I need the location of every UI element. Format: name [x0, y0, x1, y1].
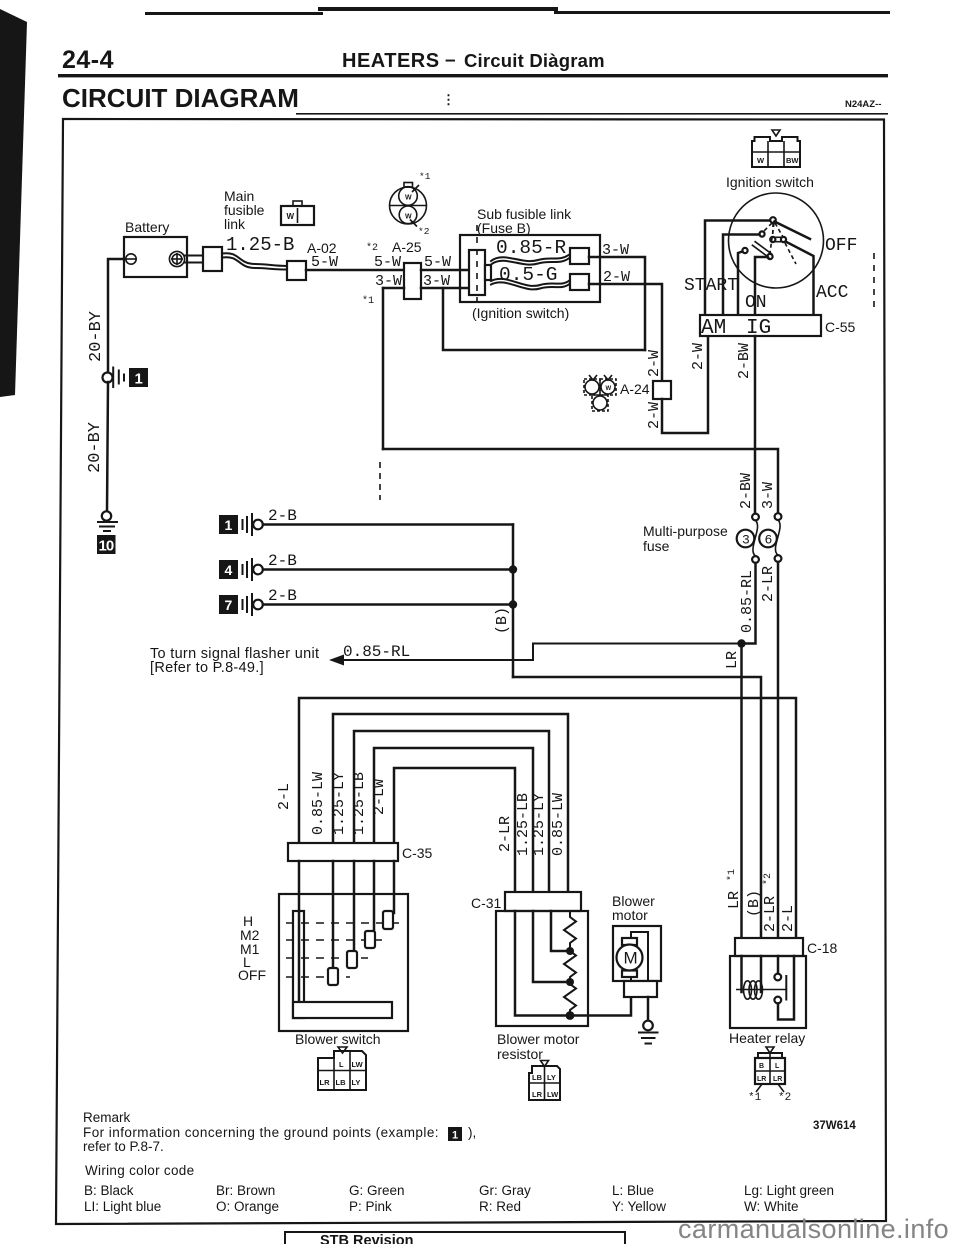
svg-text:[Refer to P.8-49.]: [Refer to P.8-49.] [150, 660, 264, 676]
blower switch contact H [383, 911, 393, 929]
svg-text:OFF: OFF [825, 236, 857, 256]
svg-text:motor: motor [612, 907, 648, 923]
blower switch dashed position line H [286, 922, 399, 924]
junction dot resistor tap M1 [566, 947, 574, 955]
wire 3-W long run to fuse 6 [383, 449, 778, 514]
connector C-18 [735, 938, 803, 956]
svg-text:LB: LB [532, 1073, 543, 1082]
svg-text:*1: *1 [748, 1092, 762, 1104]
connector C-35 [288, 843, 398, 861]
svg-text:G: Green: G: Green [349, 1183, 405, 1198]
svg-text:AM: AM [701, 317, 726, 340]
frame: diagram border box [56, 119, 886, 1224]
main fusible link connector icon [281, 206, 314, 225]
wire battery negative 20-BY [108, 259, 124, 373]
wire 1.25-LY pin to resistor tap [551, 911, 566, 951]
main fusible link holder [203, 247, 222, 271]
ground blower motor [639, 1021, 658, 1044]
svg-text:M: M [624, 949, 638, 968]
heater relay contact bottom [774, 997, 781, 1004]
svg-text:1.25-LB: 1.25-LB [515, 793, 532, 856]
page chrome: scan wedge [0, 9, 27, 397]
wire 2-LW to 2-LR loop [394, 768, 515, 892]
svg-text:carmanualsonline.info: carmanualsonline.info [678, 1214, 949, 1244]
main fusible link wire 1.25-B [222, 253, 288, 266]
svg-text:refer to P.8-7.: refer to P.8-7. [83, 1139, 164, 1154]
svg-text:LR: LR [320, 1078, 331, 1087]
ignition switch pivot [770, 217, 776, 223]
ignition switch circle [729, 193, 824, 288]
blower motor internal wire [631, 932, 648, 981]
svg-text:3-W: 3-W [760, 482, 777, 509]
svg-text:Multi-purpose: Multi-purpose [643, 523, 728, 539]
ignition switch OFF arm [775, 222, 811, 240]
svg-text:5-W: 5-W [374, 254, 401, 271]
ignition switch contact IG1 [742, 248, 747, 253]
svg-text:LR: LR [532, 1090, 543, 1099]
blower motor brush top [622, 938, 637, 945]
svg-text:(Ignition switch): (Ignition switch) [472, 305, 569, 321]
blower switch contact M1 [347, 951, 357, 968]
svg-text:LI: Light blue: LI: Light blue [84, 1199, 161, 1214]
svg-text:W: White: W: White [744, 1199, 799, 1214]
junction dot resistor output [566, 1011, 575, 1020]
svg-text:2-B: 2-B [268, 552, 297, 570]
heater relay contact bar [785, 976, 787, 1000]
ground 7 body ground symbol [219, 594, 263, 615]
svg-text:LY: LY [547, 1073, 556, 1082]
sub fusible link box [460, 235, 600, 302]
svg-text:Blower motor: Blower motor [497, 1031, 580, 1047]
svg-text:START: START [684, 276, 738, 296]
svg-text:L: Blue: L: Blue [612, 1183, 654, 1198]
svg-text:A-25: A-25 [392, 239, 422, 255]
heater relay contact wiring [777, 956, 780, 974]
blower switch contact M2 [365, 931, 375, 948]
wire (B) to heater relay [513, 677, 761, 938]
ignition switch ACC arm [786, 242, 814, 317]
svg-text:0.85-LW: 0.85-LW [310, 772, 327, 835]
ground 10 [97, 511, 117, 554]
ground 4 body ground symbol [219, 559, 263, 580]
svg-text:Lg: Light green: Lg: Light green [744, 1183, 834, 1198]
svg-text:HEATERS: HEATERS [342, 50, 440, 72]
svg-text:LW: LW [547, 1090, 559, 1099]
connector A-25 circle symbol [390, 171, 431, 237]
svg-text:Ignition switch: Ignition switch [726, 174, 814, 190]
ignition switch dashed position lines [763, 223, 796, 264]
svg-text:2-B: 2-B [268, 507, 297, 525]
svg-text:O: Orange: O: Orange [216, 1199, 279, 1214]
svg-text:ACC: ACC [816, 283, 849, 303]
svg-text:C-18: C-18 [807, 940, 838, 956]
blower motor connector block [624, 981, 657, 997]
svg-text:Remark: Remark [83, 1110, 131, 1125]
blower switch dashed position line M1 [286, 957, 368, 959]
svg-text:37W614: 37W614 [813, 1120, 856, 1132]
svg-text:CIRCUIT DIAGRAM: CIRCUIT DIAGRAM [62, 83, 299, 113]
blower motor resistor connector icon [529, 1061, 560, 1101]
blower motor resistor box [496, 911, 588, 1026]
junction dot resistor tap M2 [566, 978, 574, 986]
svg-text:C-55: C-55 [825, 319, 856, 335]
svg-text:0.85-RL: 0.85-RL [739, 570, 756, 633]
svg-text:1: 1 [135, 371, 143, 388]
wire blower motor to ground [647, 997, 650, 1021]
svg-text:2-W: 2-W [646, 402, 663, 429]
svg-text:*1: *1 [362, 295, 374, 307]
svg-text:LR: LR [724, 651, 741, 669]
blower switch dashed position line M2 [286, 939, 382, 941]
blower switch connector icon [318, 1047, 366, 1090]
sub fusible link right connectors [570, 248, 589, 264]
wire 2-L blower switch to heater relay [299, 698, 796, 938]
svg-text:L: L [339, 1060, 344, 1069]
svg-text:W: W [405, 195, 412, 202]
STB Revision box [285, 1232, 625, 1244]
svg-text:W: W [606, 386, 612, 392]
svg-text:2-L: 2-L [780, 905, 797, 932]
svg-text:fuse: fuse [643, 538, 670, 554]
heater relay coil feed (B) [760, 956, 763, 992]
svg-text:OFF: OFF [238, 967, 266, 983]
svg-text:W: W [287, 212, 295, 221]
ground 1 at battery [103, 368, 149, 388]
svg-text:*2: *2 [418, 226, 430, 237]
ignition switch connector icon [752, 130, 800, 167]
ignition switch tilted contact bar [755, 241, 773, 254]
svg-text:7: 7 [225, 597, 233, 613]
svg-text:Circuit Diàgram: Circuit Diàgram [464, 50, 605, 71]
wire 2-LR pin to resistor bottom [515, 911, 566, 1016]
svg-text:2-LR: 2-LR [760, 566, 777, 602]
ground 1 body ground symbol [219, 514, 263, 535]
heater relay box [730, 956, 806, 1028]
svg-text:5-W: 5-W [424, 254, 451, 271]
wire 3-W *1 down from A-25 [382, 288, 385, 449]
svg-text:For information concerning: For information concerning the ground po… [83, 1125, 439, 1140]
svg-text:2-LR: 2-LR [762, 896, 779, 932]
heater relay contact top [774, 974, 781, 981]
svg-text:*2: *2 [762, 873, 774, 885]
wire 1.25-LB pin to resistor tap [533, 911, 566, 982]
battery [124, 237, 187, 277]
svg-text:10: 10 [99, 538, 114, 555]
connector A-24 circle symbol [584, 375, 616, 411]
svg-text:*2: *2 [366, 242, 378, 254]
svg-text:Heater relay: Heater relay [729, 1030, 805, 1046]
svg-text:2-B: 2-B [268, 587, 297, 605]
svg-text:L: L [775, 1063, 780, 1070]
svg-text:*1: *1 [726, 869, 738, 881]
svg-text:resistor: resistor [497, 1046, 543, 1062]
svg-text:LB: LB [336, 1078, 347, 1087]
svg-text:20-BY: 20-BY [87, 311, 106, 362]
svg-text:LR: LR [726, 891, 743, 909]
ignition switch contact AM2 [759, 231, 764, 236]
svg-text:1.25-LB: 1.25-LB [351, 772, 368, 835]
svg-text:2-LW: 2-LW [371, 779, 388, 815]
wires C-35 into blower switch [298, 861, 301, 1004]
svg-text:W: W [757, 156, 765, 165]
svg-text:N24AZ--: N24AZ-- [845, 99, 881, 110]
ignition switch contact ON [767, 254, 772, 259]
svg-text:*1: *1 [419, 171, 431, 182]
heater relay coil feed LR [740, 956, 743, 992]
svg-text:STB Revision: STB Revision [320, 1233, 413, 1244]
svg-text:Blower switch: Blower switch [295, 1031, 381, 1047]
svg-text:2-BW: 2-BW [736, 343, 753, 379]
svg-text:Y: Yellow: Y: Yellow [612, 1199, 666, 1214]
svg-text:0.85-R: 0.85-R [496, 237, 567, 259]
junction dot 2-B bus b [509, 600, 517, 608]
junction dot LR [737, 639, 745, 647]
svg-text:IG: IG [746, 317, 771, 340]
svg-text:2-W: 2-W [690, 343, 707, 370]
blower switch contact L [328, 968, 338, 985]
header top rules [145, 12, 323, 15]
blower switch dashed position line OFF [286, 976, 350, 978]
svg-text:),: ), [468, 1125, 476, 1140]
blower motor brush bottom [622, 971, 637, 978]
svg-text:Br: Brown: Br: Brown [216, 1183, 275, 1198]
blower motor M [617, 945, 643, 971]
svg-text:2-BW: 2-BW [738, 473, 755, 509]
wire resistor to blower motor [570, 997, 631, 1016]
svg-text:Wiring color code: Wiring color code [85, 1163, 194, 1178]
svg-text:⋮: ⋮ [442, 92, 455, 107]
svg-text:Battery: Battery [125, 219, 169, 235]
svg-text:ON: ON [745, 293, 767, 313]
svg-text:(B): (B) [494, 607, 511, 634]
svg-text:LY: LY [352, 1078, 361, 1087]
sub fusible link left connector [469, 250, 485, 295]
battery negative terminal [126, 254, 136, 264]
svg-text:LR: LR [757, 1076, 766, 1083]
svg-text:C-35: C-35 [402, 845, 433, 861]
svg-text:24-4: 24-4 [62, 46, 114, 74]
svg-text:1: 1 [225, 517, 233, 533]
svg-text:(Fuse B): (Fuse B) [477, 220, 531, 236]
fold line artifact [379, 462, 381, 500]
svg-text:2-LR: 2-LR [497, 816, 514, 852]
ignition switch movable contact bar [773, 236, 783, 238]
wire START from pivot [705, 221, 770, 317]
svg-text:2-W: 2-W [646, 350, 663, 377]
blower switch output bar [293, 1002, 392, 1018]
wire 3-W bypass loop [443, 288, 645, 350]
svg-text:P: Pink: P: Pink [349, 1199, 392, 1214]
blower switch common bar [293, 911, 304, 1018]
resistor element zigzag [564, 911, 576, 1015]
heater relay armature line [736, 989, 786, 991]
svg-text:B: B [759, 1063, 764, 1070]
junction dot 2-B bus a [509, 565, 517, 573]
wire 0.85-LW loop [333, 714, 568, 892]
battery positive terminal [169, 251, 184, 266]
svg-text:R: Red: R: Red [479, 1199, 521, 1214]
svg-text:1.25-LY: 1.25-LY [331, 772, 348, 835]
svg-text:(B): (B) [746, 890, 763, 917]
svg-text:20-BY: 20-BY [86, 422, 105, 473]
heater relay coil [744, 981, 763, 999]
svg-text:6: 6 [765, 533, 773, 548]
svg-text:LR: LR [773, 1076, 782, 1083]
blower switch box [279, 894, 408, 1031]
svg-text:C-31: C-31 [471, 895, 502, 911]
blower motor box [613, 926, 661, 981]
wire 20-BY lower [107, 382, 108, 511]
svg-text:1: 1 [452, 1130, 458, 1142]
connector A-24 [653, 381, 671, 399]
svg-text:A-24: A-24 [620, 381, 650, 397]
fuse 6 [759, 513, 781, 562]
svg-text:3: 3 [742, 533, 750, 548]
fuse 3 [737, 514, 759, 563]
wire 1.25-LB loop [374, 748, 533, 892]
svg-text:0.85-RL: 0.85-RL [343, 643, 410, 661]
svg-text:–: – [445, 50, 456, 71]
svg-text:0.85-LW: 0.85-LW [550, 793, 567, 856]
svg-text:*2: *2 [778, 1092, 791, 1104]
connector C-55 [700, 315, 821, 336]
svg-text:link: link [224, 216, 246, 232]
svg-text:1.25-B: 1.25-B [226, 234, 294, 256]
svg-text:2-L: 2-L [276, 783, 293, 810]
svg-text:4: 4 [225, 562, 233, 578]
svg-text:LW: LW [352, 1060, 364, 1069]
svg-text:Gr: Gray: Gr: Gray [479, 1183, 531, 1198]
wire 1.25-LY loop [354, 731, 549, 892]
wire battery positive double lead [185, 255, 204, 257]
connector A-02 [287, 261, 306, 280]
heater relay connector icon [748, 1047, 791, 1104]
svg-text:BW: BW [786, 156, 799, 165]
svg-text:B: Black: B: Black [84, 1183, 134, 1198]
svg-text:5-W: 5-W [311, 254, 338, 271]
